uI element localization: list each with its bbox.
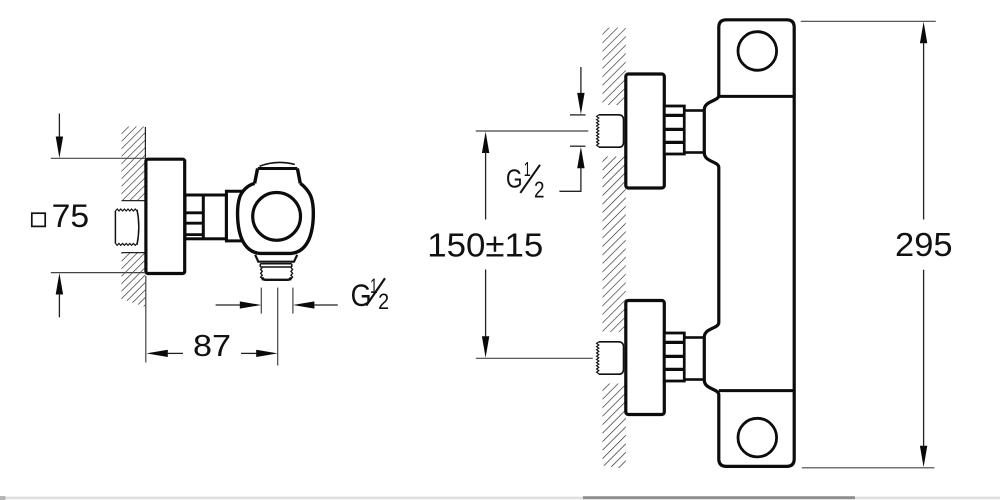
lower knurled union ring xyxy=(664,333,684,381)
upper supply nut xyxy=(597,115,624,147)
mixer body (front/side view) xyxy=(704,20,794,467)
upper knurled union ring xyxy=(664,106,684,154)
bottom handle circle xyxy=(738,418,777,457)
handle inner circle xyxy=(253,193,301,241)
dimension 295 xyxy=(801,21,953,468)
G1/2 label (right view) xyxy=(506,159,545,203)
wall hatch bottom block xyxy=(603,384,626,470)
body cap button xyxy=(255,162,301,183)
G1/2 thread tick upper xyxy=(570,114,586,116)
wall hatch top block xyxy=(603,28,626,105)
supply pipe nut behind wall xyxy=(115,209,138,245)
wall cutout lower edge line xyxy=(122,252,146,254)
lower escutcheon xyxy=(626,301,665,415)
body top cap separation line xyxy=(719,95,794,98)
neck between cylinder and body xyxy=(226,190,250,243)
outlet relief ring xyxy=(260,264,292,267)
extension line outlet left xyxy=(260,288,262,314)
upper union collar xyxy=(684,111,704,153)
svg-text:295: 295 xyxy=(895,226,953,263)
square 75 dimension xyxy=(32,114,146,318)
upper escutcheon xyxy=(626,74,665,188)
outlet skirt xyxy=(255,255,297,262)
dimension 87 xyxy=(146,276,278,363)
outlet thread G1/2 xyxy=(261,268,293,281)
svg-text:G: G xyxy=(506,164,523,194)
escutcheon plate (side view) xyxy=(146,159,185,273)
extension line outlet right xyxy=(292,288,294,314)
svg-text:150±15: 150±15 xyxy=(427,227,543,264)
G1/2 lower arrow with leader xyxy=(559,147,584,192)
extension line outlet center xyxy=(277,288,279,366)
body bottom cap separation line xyxy=(719,389,794,392)
G1/2 upper arrow xyxy=(577,67,584,114)
valve knurled ring + cylinder xyxy=(185,195,226,239)
lower union collar xyxy=(684,338,704,380)
wall hatch upper block xyxy=(122,127,146,201)
wall cutout upper edge line xyxy=(122,200,146,202)
wall face edge line xyxy=(144,127,146,159)
thermostat round body xyxy=(238,183,314,253)
bottom scrollbar track xyxy=(0,497,1000,500)
top handle circle xyxy=(738,32,777,71)
lower supply nut xyxy=(597,342,624,374)
scrollbar thumb xyxy=(583,496,855,499)
wall hatch middle block xyxy=(603,157,626,333)
svg-text:G: G xyxy=(351,277,372,313)
G1/2 label (left view) xyxy=(351,275,390,314)
dimension 150±15 xyxy=(427,131,593,358)
svg-text:1: 1 xyxy=(524,159,531,181)
svg-text:75: 75 xyxy=(52,198,90,234)
G1/2 dimension arrows (left view) xyxy=(216,301,338,308)
svg-text:2: 2 xyxy=(378,289,389,314)
G1/2 thread tick lower xyxy=(570,145,586,147)
svg-text:87: 87 xyxy=(193,328,231,363)
wall hatch lower block xyxy=(122,253,146,307)
scrollbar left nub xyxy=(0,496,6,500)
svg-text:2: 2 xyxy=(534,176,545,202)
